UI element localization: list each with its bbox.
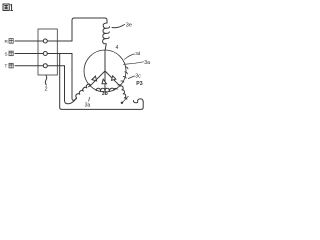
svg-text:3a: 3a xyxy=(144,60,150,66)
svg-text:3d: 3d xyxy=(135,51,141,56)
svg-text:3b: 3b xyxy=(102,91,108,97)
svg-text:3a: 3a xyxy=(85,103,91,109)
svg-text:4: 4 xyxy=(116,45,119,51)
svg-text:3e: 3e xyxy=(126,23,132,29)
svg-text:3c: 3c xyxy=(135,74,141,80)
svg-text:T: T xyxy=(5,64,8,69)
svg-text:2: 2 xyxy=(45,87,48,93)
svg-text:P3: P3 xyxy=(136,81,142,87)
svg-text:S: S xyxy=(5,51,8,56)
